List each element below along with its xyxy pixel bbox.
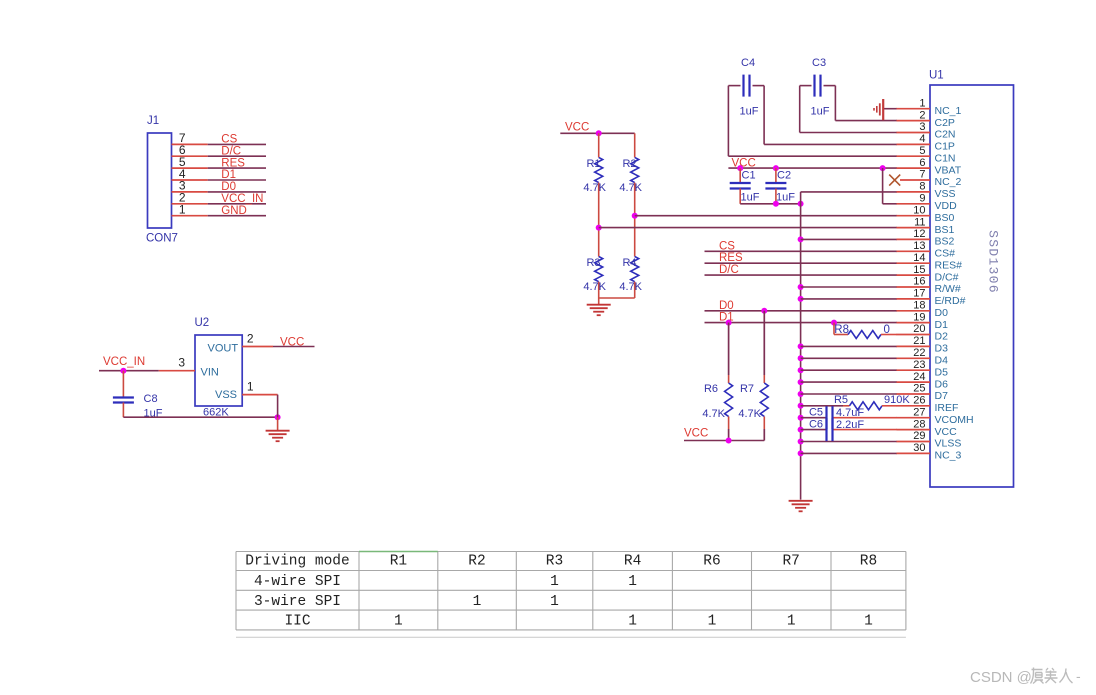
svg-text:17: 17	[913, 288, 925, 300]
svg-text:VSS: VSS	[215, 389, 237, 401]
svg-text:VOUT: VOUT	[208, 343, 239, 355]
svg-text:D/C#: D/C#	[935, 271, 959, 283]
svg-text:14: 14	[913, 252, 925, 264]
svg-text:28: 28	[913, 418, 925, 430]
svg-text:19: 19	[913, 311, 925, 323]
svg-text:R3: R3	[586, 257, 600, 269]
svg-text:7: 7	[919, 169, 925, 181]
svg-text:R3: R3	[546, 554, 563, 570]
svg-text:C1P: C1P	[935, 141, 955, 153]
svg-text:1: 1	[787, 614, 796, 630]
svg-text:2.2uF: 2.2uF	[836, 419, 864, 431]
svg-text:SSD1306: SSD1306	[986, 230, 1001, 294]
svg-text:CS: CS	[719, 240, 735, 252]
svg-text:2: 2	[919, 109, 925, 121]
svg-text:4: 4	[919, 133, 925, 145]
svg-text:C2P: C2P	[935, 117, 955, 129]
svg-text:CS: CS	[221, 134, 237, 146]
svg-text:1: 1	[708, 614, 717, 630]
svg-text:NC_1: NC_1	[935, 105, 962, 117]
svg-text:10: 10	[913, 204, 925, 216]
svg-text:910K: 910K	[884, 394, 910, 406]
svg-text:U1: U1	[929, 70, 944, 82]
svg-text:BS1: BS1	[935, 224, 955, 236]
svg-text:R4: R4	[624, 554, 641, 570]
svg-text:VCOMH: VCOMH	[935, 414, 974, 426]
svg-text:D1: D1	[221, 169, 236, 181]
svg-text:-: -	[1076, 668, 1081, 684]
svg-text:1: 1	[919, 97, 925, 109]
svg-text:GND: GND	[221, 205, 247, 217]
svg-text:R1: R1	[586, 158, 600, 170]
svg-text:1: 1	[473, 594, 482, 610]
svg-text:23: 23	[913, 359, 925, 371]
svg-text:15: 15	[913, 264, 925, 276]
svg-text:R8: R8	[834, 324, 849, 336]
svg-text:8: 8	[919, 181, 925, 193]
svg-text:CSDN @: CSDN @	[970, 669, 1032, 686]
svg-text:4.7K: 4.7K	[583, 281, 606, 293]
svg-text:RES: RES	[221, 157, 245, 169]
svg-text:R5: R5	[834, 394, 848, 406]
svg-text:R7: R7	[782, 554, 799, 570]
svg-text:D/C: D/C	[221, 145, 241, 157]
svg-text:1: 1	[628, 574, 637, 590]
svg-text:CS#: CS#	[935, 248, 956, 260]
svg-text:RES#: RES#	[935, 259, 963, 271]
svg-text:NC_2: NC_2	[935, 176, 962, 188]
svg-text:D0: D0	[221, 181, 236, 193]
svg-text:C5: C5	[809, 407, 823, 419]
svg-text:3-wire SPI: 3-wire SPI	[254, 594, 341, 610]
svg-text:CON7: CON7	[146, 233, 178, 245]
svg-text:R6: R6	[704, 383, 718, 395]
svg-text:0: 0	[884, 324, 890, 336]
svg-text:1uF: 1uF	[776, 192, 795, 204]
svg-text:4.7K: 4.7K	[738, 408, 761, 420]
svg-text:VDD: VDD	[935, 200, 958, 212]
svg-text:C1N: C1N	[935, 152, 956, 164]
svg-text:D1: D1	[935, 319, 949, 331]
svg-text:VCC: VCC	[565, 122, 589, 134]
svg-text:12: 12	[913, 228, 925, 240]
svg-text:VBAT: VBAT	[935, 164, 962, 176]
svg-text:11: 11	[914, 216, 925, 228]
svg-text:VSS: VSS	[935, 188, 956, 200]
svg-text:D6: D6	[935, 378, 949, 390]
svg-text:RES: RES	[719, 252, 743, 264]
svg-text:30: 30	[913, 442, 925, 454]
svg-text:J1: J1	[147, 115, 159, 127]
svg-text:VCC: VCC	[684, 428, 708, 440]
svg-text:R2: R2	[622, 158, 636, 170]
svg-text:4.7K: 4.7K	[702, 408, 725, 420]
svg-text:24: 24	[913, 371, 925, 383]
svg-text:D0: D0	[935, 307, 949, 319]
svg-text:C2N: C2N	[935, 129, 956, 141]
svg-text:21: 21	[913, 335, 925, 347]
svg-text:R2: R2	[468, 554, 485, 570]
svg-text:22: 22	[913, 347, 925, 359]
svg-text:1: 1	[394, 614, 403, 630]
svg-text:26: 26	[913, 395, 925, 407]
svg-text:R/W#: R/W#	[935, 283, 961, 295]
svg-text:IIC: IIC	[284, 614, 310, 630]
svg-text:4.7uF: 4.7uF	[836, 407, 864, 419]
svg-text:VLSS: VLSS	[935, 438, 962, 450]
svg-text:R8: R8	[860, 554, 877, 570]
svg-text:1: 1	[179, 203, 186, 217]
svg-text:D/C: D/C	[719, 264, 739, 276]
svg-text:1uF: 1uF	[741, 192, 760, 204]
svg-text:R4: R4	[622, 257, 636, 269]
svg-text:6: 6	[919, 157, 925, 169]
svg-text:1uF: 1uF	[811, 106, 830, 118]
svg-text:E/RD#: E/RD#	[935, 295, 966, 307]
svg-text:C4: C4	[741, 57, 755, 69]
svg-text:5: 5	[919, 145, 925, 157]
svg-text:VCC: VCC	[935, 426, 958, 438]
svg-text:C6: C6	[809, 419, 823, 431]
svg-text:NC_3: NC_3	[935, 450, 962, 462]
svg-text:C3: C3	[812, 57, 826, 69]
svg-text:1: 1	[550, 574, 559, 590]
svg-text:U2: U2	[195, 317, 210, 329]
svg-text:9: 9	[919, 193, 925, 205]
svg-text:VCC_IN: VCC_IN	[221, 193, 263, 205]
svg-text:4-wire SPI: 4-wire SPI	[254, 574, 341, 590]
svg-text:R7: R7	[740, 383, 754, 395]
svg-text:3: 3	[919, 121, 925, 133]
svg-text:1uF: 1uF	[740, 106, 759, 118]
svg-text:1: 1	[864, 614, 873, 630]
svg-text:C8: C8	[144, 393, 158, 405]
svg-text:4.7K: 4.7K	[619, 281, 642, 293]
svg-text:D4: D4	[935, 355, 949, 367]
svg-text:IREF: IREF	[935, 402, 959, 414]
svg-text:3: 3	[178, 356, 185, 370]
svg-text:4.7K: 4.7K	[583, 182, 606, 194]
svg-text:1: 1	[628, 614, 637, 630]
svg-text:18: 18	[913, 300, 925, 312]
svg-text:Driving mode: Driving mode	[245, 554, 349, 570]
svg-text:4.7K: 4.7K	[619, 182, 642, 194]
svg-text:VCC: VCC	[280, 337, 304, 349]
svg-text:C2: C2	[777, 170, 791, 182]
svg-text:1: 1	[247, 380, 254, 394]
svg-text:D3: D3	[935, 343, 949, 355]
svg-text:VIN: VIN	[201, 367, 219, 379]
svg-text:D2: D2	[935, 331, 949, 343]
svg-text:D7: D7	[935, 390, 949, 402]
svg-text:2: 2	[247, 332, 254, 346]
svg-text:16: 16	[913, 276, 925, 288]
svg-text:C1: C1	[742, 170, 756, 182]
svg-text:1: 1	[550, 594, 559, 610]
svg-text:R6: R6	[703, 554, 720, 570]
svg-text:25: 25	[913, 383, 925, 395]
svg-text:13: 13	[913, 240, 925, 252]
svg-text:D5: D5	[935, 366, 949, 378]
svg-text:27: 27	[913, 406, 925, 418]
svg-text:VCC_IN: VCC_IN	[103, 356, 145, 368]
svg-text:20: 20	[913, 323, 925, 335]
svg-text:R1: R1	[390, 554, 407, 570]
svg-text:D0: D0	[719, 300, 734, 312]
svg-text:BS0: BS0	[935, 212, 955, 224]
svg-text:29: 29	[913, 430, 925, 442]
svg-text:BS2: BS2	[935, 236, 955, 248]
